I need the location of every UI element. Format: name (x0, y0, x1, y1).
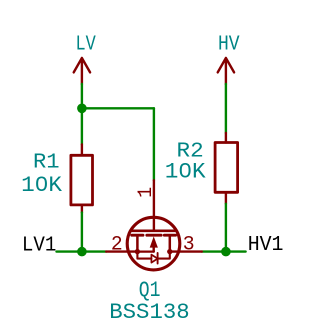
transistor Q1 pin 1 (gate) (153, 180, 155, 230)
Q1 channel plate middle (body) (147, 234, 161, 237)
svg-text:LV: LV (76, 34, 97, 57)
svg-text:BSS138: BSS138 (109, 299, 189, 325)
transistor Q1 body circle (127, 217, 180, 270)
Q1 substrate diode triangle (151, 255, 157, 263)
Q1 substrate diode loop right (158, 252, 170, 259)
svg-text:R1: R1 (33, 151, 60, 175)
erase mono zero dot (R1 value) (39, 180, 44, 187)
svg-text:LV1: LV1 (22, 233, 56, 257)
Q1 body arrow (150, 236, 158, 247)
resistor R2 pin 1 stub (225, 133, 227, 143)
resistor R2 pin 2 stub (225, 192, 227, 204)
svg-text:1: 1 (135, 187, 158, 198)
Q1 substrate diode cathode bar (157, 253, 159, 264)
resistor R1 pin 1 stub (81, 145, 83, 156)
Q1 body-source link (137, 250, 153, 252)
power symbol HV (arrow) (218, 58, 234, 84)
Q1 gate bar (132, 230, 175, 233)
wire LV rail upper (81, 84, 83, 145)
transistor Q1 pin 2 (source) (106, 250, 137, 252)
wire branch horizontal to gate (82, 107, 154, 109)
wire R1 to LV1 row (81, 213, 83, 252)
svg-text:HV: HV (218, 33, 240, 56)
svg-text:HV1: HV1 (248, 233, 284, 257)
svg-text:2: 2 (111, 233, 123, 256)
Q1 channel plate right (drain) (164, 234, 175, 237)
erase mono zero dot (R2 value) (183, 167, 188, 174)
resistor R1 body (71, 155, 93, 205)
svg-text:3: 3 (183, 234, 195, 257)
wire HV rail upper (225, 84, 227, 133)
transistor Q1 pin 3 (drain) (170, 250, 202, 252)
Q1 body stem (152, 247, 154, 252)
junction LV1 (77, 247, 87, 257)
Q1 drain junction dot (167, 249, 172, 254)
Q1 source junction dot (135, 249, 140, 254)
junction LV branch (77, 104, 87, 114)
wire LV1 row (57, 250, 107, 252)
resistor R2 body (215, 143, 238, 193)
power symbol LV (arrow) (74, 58, 90, 84)
Q1 substrate diode loop left (137, 252, 151, 259)
Q1 channel plate left (source) (132, 234, 143, 237)
junction HV1 (221, 247, 231, 257)
Q1 source stub (136, 236, 139, 252)
wire branch vertical to gate (153, 108, 155, 180)
wire R2 to HV1 row (225, 204, 227, 252)
wire HV1 row (202, 250, 246, 252)
resistor R1 pin 2 stub (81, 205, 83, 213)
Q1 drain stub (169, 236, 172, 252)
